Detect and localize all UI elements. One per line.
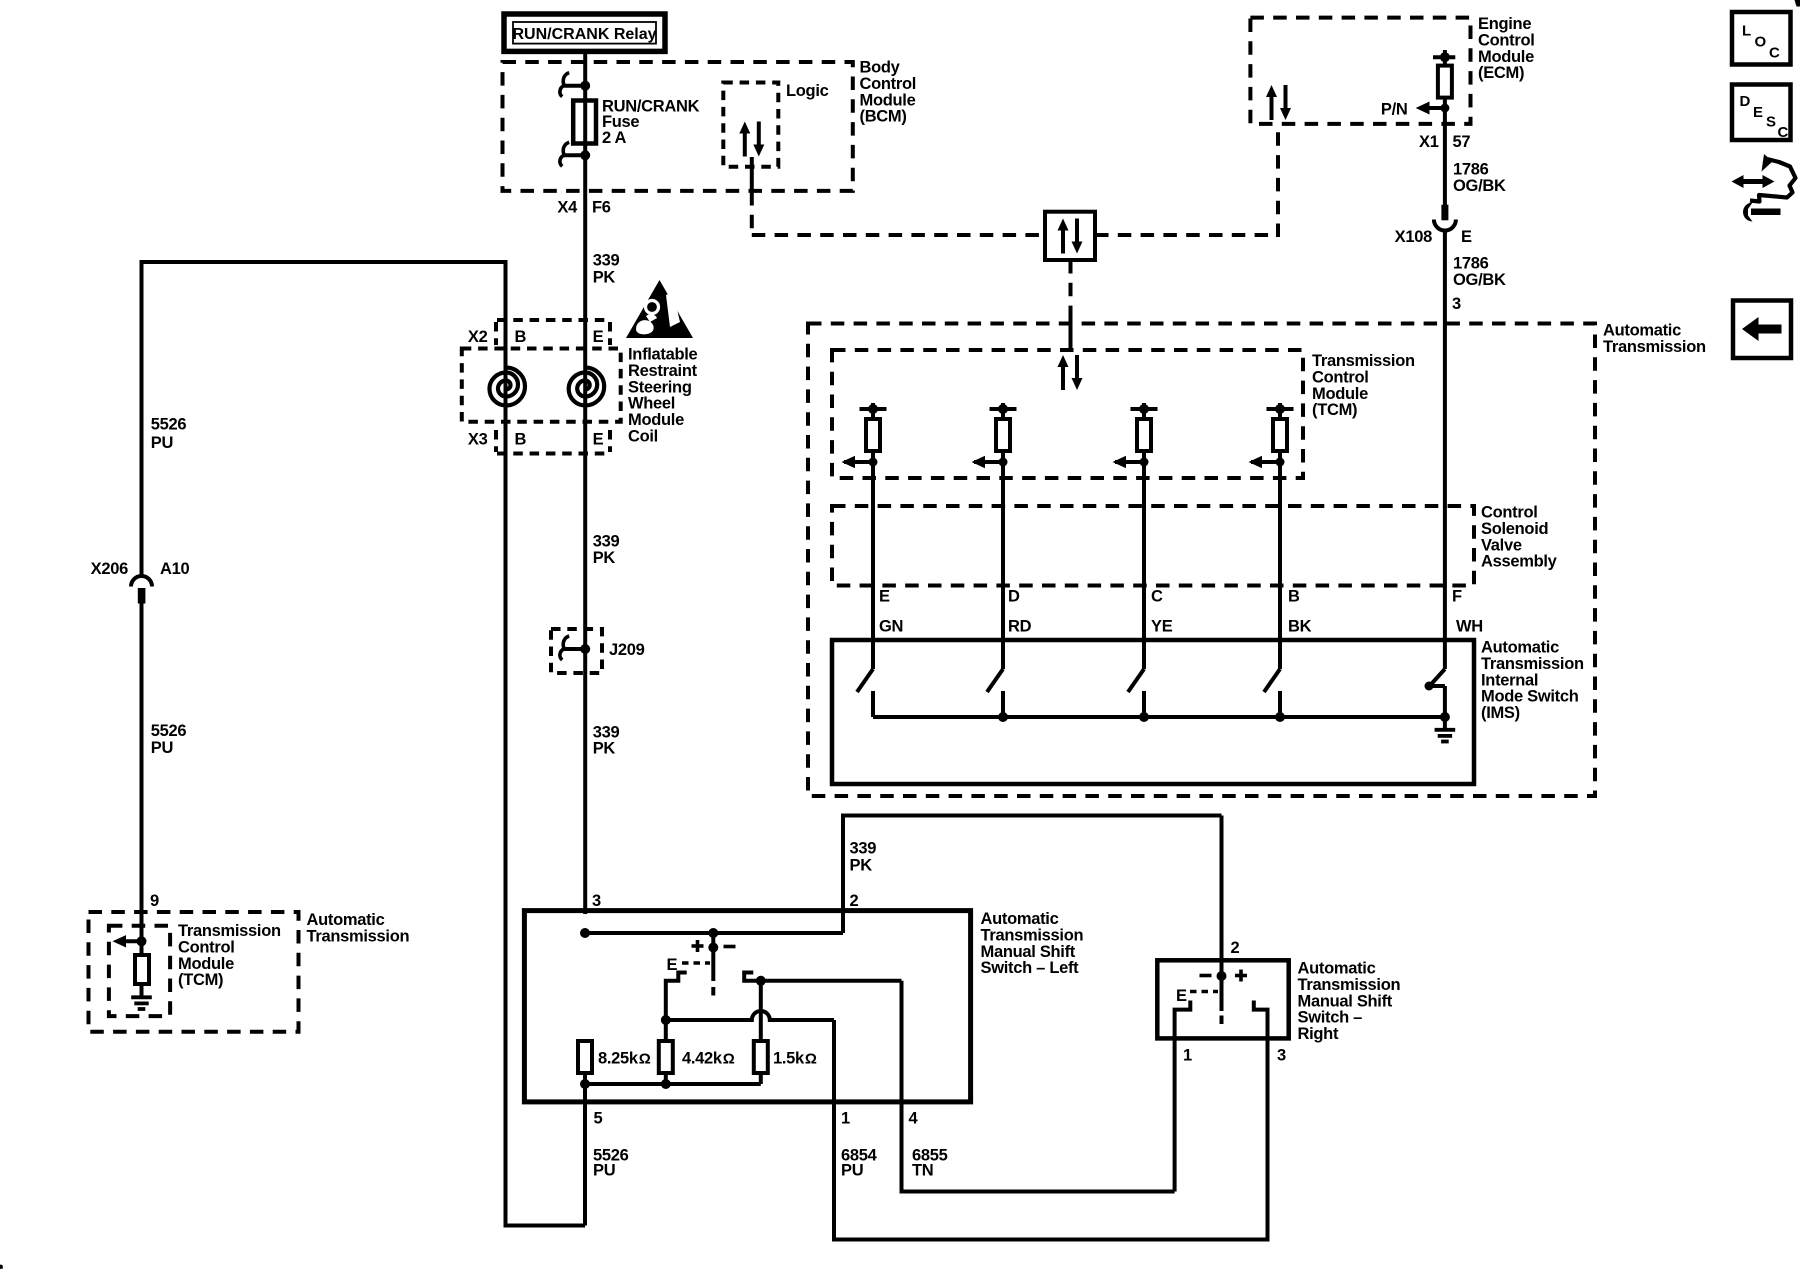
wire 1786 OG/BK to transmission bbox=[1443, 231, 1447, 669]
control solenoid valve assembly dashed box bbox=[832, 506, 1474, 586]
wire 5526 PU upper segment bbox=[140, 262, 144, 577]
coil spiral right bbox=[569, 368, 605, 406]
svg-text:(TCM): (TCM) bbox=[1312, 401, 1357, 419]
label Automatic Transmission Internal Mode Switch (IMS) bbox=[1481, 639, 1584, 723]
coil module dashed box bbox=[462, 349, 621, 422]
serial data gateway box bbox=[1045, 212, 1095, 260]
resistor 8.25k bbox=[578, 1041, 592, 1073]
connector X2 band bbox=[496, 320, 610, 345]
svg-text:Control: Control bbox=[1478, 31, 1535, 49]
svg-text:L: L bbox=[1742, 23, 1751, 40]
svg-text:3: 3 bbox=[1277, 1047, 1286, 1065]
airbag warning triangle bbox=[626, 280, 693, 338]
svg-text:Logic: Logic bbox=[786, 82, 829, 100]
wire 1.5k to bus bbox=[759, 1073, 763, 1084]
node B bus bbox=[1275, 712, 1285, 722]
svg-text:4.42kΩ: 4.42kΩ bbox=[682, 1050, 735, 1068]
svg-text:X3: X3 bbox=[468, 431, 488, 449]
BCM dashed box bbox=[503, 62, 853, 191]
wire to ground bbox=[140, 984, 144, 997]
svg-text:PK: PK bbox=[850, 856, 873, 874]
IMS switch B bbox=[1264, 640, 1280, 717]
svg-text:TN: TN bbox=[912, 1162, 933, 1180]
IMS wiper F bbox=[1425, 669, 1445, 717]
label 6854 PU bbox=[841, 1147, 878, 1180]
svg-text:GN: GN bbox=[879, 618, 903, 636]
connector X3 band bbox=[496, 430, 610, 454]
svg-text:Transmission: Transmission bbox=[1481, 655, 1584, 673]
corner mark top right bbox=[1795, 0, 1800, 7]
svg-text:Transmission: Transmission bbox=[1298, 976, 1401, 994]
svg-text:Automatic: Automatic bbox=[307, 911, 385, 929]
svg-text:C: C bbox=[1769, 45, 1780, 62]
P/N sense arrow bbox=[1416, 102, 1450, 115]
svg-text:339: 339 bbox=[593, 723, 620, 741]
terminal below fuse bbox=[560, 142, 590, 166]
resistor 4.42k bbox=[659, 1041, 673, 1073]
wire 339 PK branch horizontal bbox=[843, 814, 1222, 818]
label 339 PK bbox=[593, 533, 620, 568]
svg-text:Switch – Left: Switch – Left bbox=[981, 959, 1080, 977]
label 6855 TN bbox=[912, 1147, 948, 1180]
svg-text:5: 5 bbox=[594, 1110, 603, 1128]
svg-text:E: E bbox=[1461, 228, 1472, 246]
TCM dashed box bbox=[832, 350, 1303, 478]
E dashes bbox=[1190, 990, 1218, 994]
svg-text:E: E bbox=[667, 956, 678, 974]
svg-text:Transmission: Transmission bbox=[307, 927, 410, 945]
svg-text:B: B bbox=[515, 328, 527, 346]
svg-text:X2: X2 bbox=[468, 328, 488, 346]
corner mark bottom left bbox=[0, 1265, 3, 1270]
svg-text:OG/BK: OG/BK bbox=[1453, 271, 1506, 289]
solenoid driver C with wire bbox=[1113, 403, 1158, 669]
wire bus to ground bbox=[1443, 717, 1447, 729]
svg-text:3: 3 bbox=[592, 892, 601, 910]
svg-text:PK: PK bbox=[593, 549, 616, 567]
svg-text:339: 339 bbox=[850, 840, 877, 858]
svg-text:OG/BK: OG/BK bbox=[1453, 177, 1506, 195]
wire 5526 PU lower segment bbox=[140, 604, 144, 957]
fuse RUN/CRANK 2A bbox=[573, 101, 596, 144]
serial data arrows in ECM bbox=[1266, 85, 1291, 120]
svg-text:1: 1 bbox=[1183, 1047, 1192, 1065]
svg-text:E: E bbox=[593, 328, 604, 346]
serial data arrows in TCM bbox=[1058, 355, 1083, 390]
RUN/CRANK Relay label box bbox=[504, 14, 665, 51]
svg-text:Valve: Valve bbox=[1481, 536, 1522, 554]
svg-text:5526: 5526 bbox=[151, 416, 187, 434]
coil spiral left bbox=[490, 368, 526, 406]
node pin3 bbox=[580, 928, 590, 938]
svg-text:E: E bbox=[593, 431, 604, 449]
svg-text:RUN/CRANK Relay: RUN/CRANK Relay bbox=[512, 26, 656, 43]
svg-text:Solenoid: Solenoid bbox=[1481, 520, 1548, 538]
solenoid driver B with wire bbox=[1249, 403, 1294, 669]
svg-text:Manual Shift: Manual Shift bbox=[1298, 992, 1393, 1010]
label 339 PK bbox=[850, 840, 877, 875]
serial data arrows in gateway bbox=[1058, 219, 1083, 254]
svg-text:Engine: Engine bbox=[1478, 15, 1531, 33]
svg-text:Assembly: Assembly bbox=[1481, 553, 1558, 571]
svg-text:Transmission: Transmission bbox=[1603, 338, 1706, 356]
svg-text:1786: 1786 bbox=[1453, 161, 1489, 179]
label 339 PK bbox=[593, 723, 620, 757]
svg-text:5526: 5526 bbox=[151, 722, 187, 740]
svg-text:Internal: Internal bbox=[1481, 671, 1538, 689]
svg-text:4: 4 bbox=[909, 1110, 919, 1128]
svg-text:Transmission: Transmission bbox=[178, 922, 281, 940]
ground IMS bbox=[1435, 730, 1456, 742]
svg-text:Transmission: Transmission bbox=[981, 926, 1084, 944]
svg-text:Control: Control bbox=[860, 75, 917, 93]
svg-text:C: C bbox=[1778, 124, 1789, 141]
terminal above fuse bbox=[560, 73, 590, 97]
plus mark bbox=[1235, 970, 1247, 982]
label Automatic Transmission bbox=[307, 911, 410, 945]
connector X206 bbox=[131, 576, 152, 604]
svg-text:D: D bbox=[1740, 93, 1751, 110]
svg-text:F: F bbox=[1452, 588, 1462, 606]
svg-text:A10: A10 bbox=[160, 560, 189, 578]
wiper stem bbox=[708, 933, 718, 996]
svg-text:Automatic: Automatic bbox=[1481, 639, 1559, 657]
label Transmission Control Module (TCM) bbox=[1312, 352, 1415, 419]
svg-text:Module: Module bbox=[1478, 48, 1534, 66]
svg-text:2: 2 bbox=[850, 892, 859, 910]
E contact bracket bbox=[666, 973, 687, 1042]
ECM pull-up node tick bbox=[1433, 50, 1455, 66]
node junction on TCM input bbox=[137, 936, 147, 946]
svg-text:Control: Control bbox=[1312, 368, 1369, 386]
automatic transmission dashed box bbox=[808, 324, 1595, 797]
connector X108 bbox=[1434, 205, 1456, 231]
svg-text:8.25kΩ: 8.25kΩ bbox=[598, 1050, 651, 1068]
svg-text:PU: PU bbox=[151, 434, 173, 452]
plus mark bbox=[692, 940, 704, 952]
wire 339 PK branch down to pin 2 bbox=[841, 814, 845, 934]
TCM outer dashed box (automatic transmission) bbox=[89, 912, 299, 1032]
DESC icon box bbox=[1732, 85, 1791, 142]
svg-text:2: 2 bbox=[1231, 939, 1240, 957]
manual shift switch right box bbox=[1157, 960, 1288, 1038]
minus mark bbox=[1200, 974, 1212, 978]
svg-text:Mode Switch: Mode Switch bbox=[1481, 688, 1579, 706]
svg-text:Control: Control bbox=[178, 938, 235, 956]
back arrow icon box bbox=[1733, 301, 1791, 359]
label Automatic Transmission bbox=[1603, 322, 1706, 356]
svg-text:C: C bbox=[1151, 588, 1163, 606]
svg-text:BK: BK bbox=[1288, 618, 1312, 636]
label Automatic Transmission Manual Shift Switch - Left bbox=[981, 910, 1084, 977]
svg-text:Module: Module bbox=[1312, 385, 1368, 403]
svg-text:X206: X206 bbox=[91, 560, 128, 578]
wire 8.25k to bus bbox=[583, 1073, 587, 1084]
wire pin 2 right switch bbox=[1220, 816, 1224, 977]
svg-text:D: D bbox=[1008, 588, 1020, 606]
wire bottom horizontal to pin 5 bbox=[506, 1224, 586, 1228]
splice hook J209 bbox=[560, 636, 590, 660]
label 5526 PU bbox=[593, 1147, 629, 1180]
svg-text:Automatic: Automatic bbox=[981, 910, 1059, 928]
svg-text:J209: J209 bbox=[609, 641, 645, 659]
svg-text:PU: PU bbox=[593, 1162, 615, 1180]
resistor 1.5k bbox=[754, 1041, 768, 1073]
svg-text:Inflatable: Inflatable bbox=[628, 346, 698, 364]
svg-text:1786: 1786 bbox=[1453, 255, 1489, 273]
wire logic drop dashed bbox=[750, 192, 754, 237]
logic dashed box bbox=[723, 83, 778, 167]
label Transmission Control Module (TCM) bbox=[178, 922, 281, 989]
quick reference icon (arrow and wrench) bbox=[1732, 154, 1796, 222]
IMS box bbox=[832, 640, 1474, 784]
svg-text:Steering: Steering bbox=[628, 378, 692, 396]
svg-text:(TCM): (TCM) bbox=[178, 971, 223, 989]
wire pin 4 drop bbox=[900, 981, 904, 1194]
svg-text:1: 1 bbox=[841, 1110, 850, 1128]
svg-text:RD: RD bbox=[1008, 618, 1032, 636]
svg-text:Module: Module bbox=[628, 411, 684, 429]
ECM dashed box bbox=[1250, 18, 1470, 124]
svg-text:Control: Control bbox=[1481, 504, 1538, 522]
right contact bracket to pin 3 bbox=[1254, 1001, 1268, 1242]
svg-text:O: O bbox=[1755, 34, 1767, 51]
label RUN/CRANK Fuse 2 A bbox=[602, 98, 700, 147]
svg-text:X1: X1 bbox=[1419, 133, 1439, 151]
signal arrow in TCM bbox=[113, 935, 142, 947]
LOC icon box bbox=[1732, 12, 1791, 65]
svg-text:9: 9 bbox=[150, 892, 159, 910]
wire to resistor bbox=[140, 941, 144, 956]
svg-text:E: E bbox=[1176, 987, 1187, 1005]
node wiper bbox=[708, 928, 718, 938]
node C bus bbox=[1139, 712, 1149, 722]
solenoid driver E with wire bbox=[842, 403, 887, 669]
wiper stem right bbox=[1217, 971, 1227, 1024]
svg-text:PK: PK bbox=[593, 740, 616, 758]
svg-text:WH: WH bbox=[1456, 618, 1483, 636]
svg-text:Manual Shift: Manual Shift bbox=[981, 943, 1076, 961]
node F bus bbox=[1440, 712, 1450, 722]
right contact bracket to pin 4 bbox=[744, 973, 901, 981]
svg-text:PK: PK bbox=[593, 268, 616, 286]
label Control Solenoid Valve Assembly bbox=[1481, 504, 1558, 571]
wire top horizontal bbox=[140, 260, 508, 264]
wire serial data horizontal left bbox=[752, 233, 1045, 237]
TCM inner dashed box bbox=[109, 926, 170, 1016]
node 8.25k bus bbox=[580, 1079, 590, 1089]
svg-text:X4: X4 bbox=[557, 199, 578, 217]
IMS switch C bbox=[1128, 640, 1144, 717]
svg-text:Wheel: Wheel bbox=[628, 395, 675, 413]
wire 6854 PU horizontal bbox=[834, 1238, 1268, 1242]
E contact bracket to pin 1 bbox=[1175, 1001, 1191, 1192]
wire 4.42k to bus bbox=[664, 1073, 668, 1084]
resistor bus bbox=[585, 1082, 761, 1086]
svg-text:Body: Body bbox=[860, 59, 901, 77]
svg-text:339: 339 bbox=[593, 252, 620, 270]
splice J209 dashed box bbox=[551, 629, 602, 673]
svg-text:X108: X108 bbox=[1395, 228, 1432, 246]
manual shift switch left box bbox=[524, 911, 970, 1102]
wire 339 PK main vertical bbox=[583, 52, 587, 915]
wire serial data horizontal right bbox=[1095, 233, 1278, 237]
svg-text:Switch –: Switch – bbox=[1298, 1009, 1363, 1027]
wire E bracket to pin 1 with hop bbox=[666, 1011, 834, 1020]
label Automatic Transmission Manual Shift Switch - Right bbox=[1298, 960, 1401, 1044]
svg-text:PU: PU bbox=[841, 1162, 863, 1180]
svg-text:339: 339 bbox=[593, 533, 620, 551]
svg-text:Coil: Coil bbox=[628, 428, 658, 446]
wire pin 5 drop bbox=[583, 1084, 587, 1226]
wire 1786 OG/BK vertical bbox=[1443, 98, 1447, 206]
ECM resistor bbox=[1438, 66, 1452, 98]
svg-text:(ECM): (ECM) bbox=[1478, 64, 1524, 82]
wire 6855 TN horizontal bbox=[902, 1190, 1175, 1194]
svg-text:Restraint: Restraint bbox=[628, 362, 698, 380]
svg-text:57: 57 bbox=[1453, 133, 1471, 151]
serial data arrows in logic box bbox=[739, 122, 764, 157]
svg-text:Transmission: Transmission bbox=[1312, 352, 1415, 370]
label 1786 OG/BK bbox=[1453, 161, 1506, 196]
IMS common bus bbox=[873, 715, 1445, 719]
label 1786 OG/BK bbox=[1453, 255, 1506, 290]
ground in TCM bbox=[131, 997, 152, 1009]
wire serial data drop solid tick bbox=[1069, 312, 1073, 351]
svg-text:(BCM): (BCM) bbox=[860, 108, 907, 126]
svg-text:Automatic: Automatic bbox=[1603, 322, 1681, 340]
svg-text:YE: YE bbox=[1151, 618, 1173, 636]
svg-text:E: E bbox=[1753, 104, 1763, 121]
label Body Control Module (BCM) bbox=[860, 59, 917, 126]
svg-text:Module: Module bbox=[178, 955, 234, 973]
svg-text:(IMS): (IMS) bbox=[1481, 704, 1520, 722]
label Engine Control Module (ECM) bbox=[1478, 15, 1535, 82]
svg-text:Right: Right bbox=[1298, 1025, 1339, 1043]
svg-text:Module: Module bbox=[860, 91, 916, 109]
node 1.5k tap bbox=[756, 976, 766, 986]
svg-text:Automatic: Automatic bbox=[1298, 960, 1376, 978]
wire serial data drop to TCM dashed bbox=[1069, 260, 1073, 312]
svg-text:P/N: P/N bbox=[1381, 101, 1408, 119]
wire 1.5k drop bbox=[759, 981, 763, 1041]
node E bracket bbox=[661, 1015, 671, 1025]
svg-text:S: S bbox=[1766, 114, 1776, 131]
minus mark bbox=[724, 945, 736, 949]
node 4.42k bus bbox=[661, 1079, 671, 1089]
IMS switch D bbox=[987, 640, 1003, 717]
solenoid driver D with wire bbox=[972, 403, 1017, 669]
svg-text:F6: F6 bbox=[592, 199, 611, 217]
E dashes bbox=[682, 961, 710, 965]
svg-text:3: 3 bbox=[1452, 295, 1461, 313]
svg-text:PU: PU bbox=[151, 739, 173, 757]
node D bus bbox=[998, 712, 1008, 722]
wire logic drop solid bbox=[750, 157, 754, 192]
svg-text:2 A: 2 A bbox=[602, 129, 627, 147]
IMS switch E bbox=[857, 640, 873, 717]
label Inflatable Restraint Steering Wheel Module Coil bbox=[628, 346, 698, 446]
label 339 PK bbox=[593, 252, 620, 287]
svg-text:E: E bbox=[879, 588, 890, 606]
wire coil B side bbox=[504, 260, 508, 1228]
svg-text:1.5kΩ: 1.5kΩ bbox=[773, 1050, 817, 1068]
svg-text:B: B bbox=[1288, 588, 1300, 606]
resistor in TCM bbox=[135, 955, 149, 984]
wire serial data vertical to ECM bbox=[1276, 124, 1280, 237]
wire pin 1 drop bbox=[832, 1020, 836, 1242]
svg-text:B: B bbox=[515, 431, 527, 449]
internal wire pin3 to pin2 bbox=[585, 931, 843, 935]
